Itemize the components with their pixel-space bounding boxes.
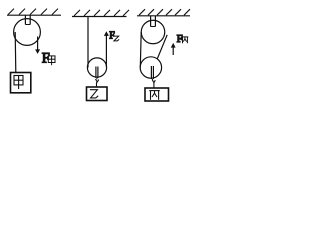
svg-text:F: F bbox=[177, 33, 183, 45]
